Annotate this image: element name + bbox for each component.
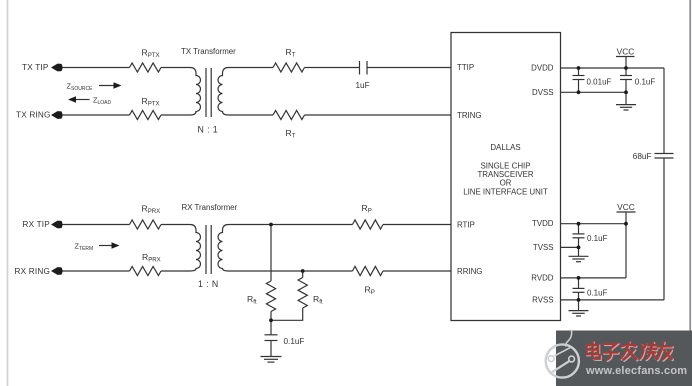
svg-text:RX TIP: RX TIP <box>23 220 51 229</box>
capacitor 0.01uF plate top <box>573 75 585 77</box>
wire to transformer primary bottom <box>161 114 187 116</box>
node dot TVDD / VCC2 <box>624 222 628 226</box>
page right border line <box>689 0 691 386</box>
svg-text:1 : N: 1 : N <box>198 279 219 289</box>
wire VCC1 stub <box>625 57 627 69</box>
node dot TVSS / cap <box>577 246 581 250</box>
watermark text www.elecfans.com <box>586 365 687 377</box>
resistor RT top body <box>273 63 305 72</box>
ground symbol DVSS line 2 <box>620 106 632 108</box>
watermark badge box <box>556 331 692 386</box>
ground symbol TVSS line 2 <box>572 258 584 260</box>
wire RX secondary bottom <box>232 270 353 272</box>
svg-text:Rft: Rft <box>247 294 257 306</box>
wire RX secondary top to RP <box>232 224 353 226</box>
svg-text:TX TIP: TX TIP <box>22 63 49 72</box>
transformer T2 secondary winding <box>218 225 231 272</box>
capacitor C 1uF plate right <box>366 61 368 75</box>
svg-text:0.1uF: 0.1uF <box>284 337 305 346</box>
watermark brand text 电子发烧友 strokes <box>587 342 672 360</box>
capacitor C0.1uF digital bottom stub <box>625 80 627 93</box>
TX RING input arrowhead <box>51 111 63 119</box>
resistor RP bottom body <box>353 266 384 275</box>
capacitor 0.01uF plate bottom <box>573 79 585 81</box>
wire TVSS to ground <box>578 247 580 256</box>
svg-text:68uF: 68uF <box>633 152 652 161</box>
wire RX TIP <box>60 224 130 226</box>
svg-text:RVSS: RVSS <box>532 295 553 304</box>
svg-text:RTIP: RTIP <box>457 221 475 230</box>
ground symbol RX line 2 <box>264 358 278 360</box>
net VCC2 underline <box>617 211 636 213</box>
svg-text:RX Transformer: RX Transformer <box>182 203 238 212</box>
svg-text:TX Transformer: TX Transformer <box>181 47 236 56</box>
transformer T2 core line 2 <box>210 225 212 274</box>
transformer T1 core line 2 <box>210 68 212 117</box>
svg-text:TRING: TRING <box>457 111 482 120</box>
resistor RR bottom lead <box>270 312 272 321</box>
wire DVDD <box>561 67 665 69</box>
resistor RP top body <box>353 220 384 229</box>
capacitor C0.1uF RVDD top stub <box>578 278 580 289</box>
svg-text:RPRX: RPRX <box>142 252 161 264</box>
svg-text:DALLAS: DALLAS <box>490 143 520 152</box>
svg-text:RX RING: RX RING <box>15 267 51 276</box>
watermark logo cable upper segment <box>554 347 570 356</box>
svg-text:DVSS: DVSS <box>532 88 554 97</box>
Zsource arrowhead <box>114 82 122 88</box>
ground symbol DVSS line 3 <box>624 109 629 111</box>
ground symbol RVSS line 2 <box>572 312 584 314</box>
resistor RPTX bottom body <box>130 110 162 119</box>
svg-text:RP: RP <box>365 284 375 296</box>
svg-text:ZSOURCE: ZSOURCE <box>67 82 94 92</box>
svg-text:RRING: RRING <box>457 267 482 276</box>
capacitor C 0.1uF plate bottom <box>265 340 278 342</box>
wire right vertical rail bottom <box>663 158 665 300</box>
RX TIP input arrowhead <box>51 221 63 229</box>
svg-text:TVDD: TVDD <box>532 219 554 228</box>
svg-text:0.1uF: 0.1uF <box>635 78 656 87</box>
svg-text:N : 1: N : 1 <box>198 124 219 134</box>
wire RT bottom to TRING pin <box>305 114 452 116</box>
capacitor C0.1uF digital top stub <box>625 68 627 76</box>
svg-text:RPTX: RPTX <box>142 96 160 108</box>
svg-text:TTIP: TTIP <box>457 63 474 72</box>
capacitor 0.01uF top stub <box>578 68 580 76</box>
resistor RPRX top body <box>130 220 162 229</box>
resistor Rft bottom lead and connector to junction <box>271 308 303 320</box>
watermark logo circle ring <box>546 344 579 377</box>
wire DVSS <box>561 91 627 93</box>
wire VCC2 stub <box>625 212 627 224</box>
transformer T2 primary winding <box>187 225 201 272</box>
transformer T1 core line 1 <box>205 68 207 117</box>
node dot RVDD / cap <box>577 276 581 280</box>
wire RP bottom to RRING pin <box>383 270 451 272</box>
resistor RPTX top body <box>130 63 162 72</box>
page left border line <box>7 0 9 386</box>
capacitor C0.1uF digital plate top <box>620 75 632 77</box>
wire RVSS <box>561 299 665 301</box>
wire to RX transformer primary bottom <box>161 270 187 272</box>
svg-text:ZLOAD: ZLOAD <box>93 96 112 106</box>
node dot DVDD / 0.01uF <box>577 66 581 70</box>
wire TVDD <box>561 223 627 225</box>
capacitor C0.1uF TVDD bottom stub <box>578 238 580 248</box>
RX RING input arrowhead <box>51 267 63 275</box>
resistor RT bottom body <box>273 110 305 119</box>
wire secondary top to RT <box>232 67 274 69</box>
svg-text:TX RING: TX RING <box>16 110 51 119</box>
wire to transformer primary top <box>161 67 187 69</box>
capacitor 68uF plate bottom <box>655 157 674 159</box>
ground symbol DVSS line 1 <box>616 104 636 106</box>
node junction dot RRING net / Rft <box>301 269 305 273</box>
watermark logo prong hole left <box>548 356 554 362</box>
ground symbol RX line 3 <box>268 361 275 363</box>
wire RVDD <box>561 277 627 279</box>
svg-text:RP: RP <box>362 203 372 215</box>
watermark logo prong hole right <box>569 356 575 362</box>
capacitor C0.1uF RVDD plate top <box>573 287 585 289</box>
wire DVSS to ground <box>625 92 627 104</box>
Zterm arrow line <box>99 245 114 247</box>
capacitor C0.1uF TVDD plate top <box>573 233 585 235</box>
node junction dot RTIP net / RR <box>269 223 273 227</box>
svg-text:1uF: 1uF <box>356 81 370 90</box>
Zload arrow line <box>74 99 90 101</box>
svg-text:0.01uF: 0.01uF <box>587 78 612 87</box>
capacitor 0.01uF bottom stub <box>578 80 580 93</box>
resistor Rft body vertical <box>298 278 307 309</box>
capacitor C0.1uF RVDD bottom stub <box>578 292 580 300</box>
svg-text:VCC: VCC <box>617 46 635 56</box>
capacitor C0.1uF digital plate bottom <box>620 79 632 81</box>
capacitor C 1uF plate left <box>359 61 361 75</box>
node dot RVSS / cap <box>577 298 581 302</box>
ground symbol TVSS line 3 <box>576 261 581 263</box>
node dot TVDD / cap <box>577 222 581 226</box>
resistor RR body vertical <box>266 281 275 312</box>
svg-text:RT: RT <box>286 47 296 59</box>
Zterm arrowhead <box>112 242 120 248</box>
svg-text:VCC: VCC <box>617 202 635 212</box>
svg-text:SINGLE CHIP: SINGLE CHIP <box>481 161 531 170</box>
svg-text:Rft: Rft <box>313 294 323 306</box>
svg-text:RVDD: RVDD <box>531 273 554 282</box>
capacitor C0.1uF TVDD top stub <box>578 224 580 234</box>
svg-text:0.1uF: 0.1uF <box>587 289 608 298</box>
wire VCC2 down to RVDD <box>625 224 627 278</box>
node dot DVSS / ground <box>624 90 628 94</box>
node dot DVDD / VCC1 <box>624 66 628 70</box>
wire to RX transformer primary top <box>161 224 187 226</box>
transformer T1 primary winding <box>187 68 201 116</box>
capacitor C0.1uF RVDD plate bottom <box>573 291 585 293</box>
svg-text:ZTERM: ZTERM <box>75 242 94 252</box>
svg-text:0.1uF: 0.1uF <box>587 234 608 243</box>
capacitor C0.1uF TVDD plate bottom <box>573 237 585 239</box>
resistor RR stub from RTIP net <box>270 225 272 282</box>
net VCC1 underline <box>616 56 635 58</box>
transformer T2 core line 1 <box>205 225 207 274</box>
wire capacitor to ground <box>270 341 272 357</box>
svg-text:DVDD: DVDD <box>531 64 554 73</box>
wire RP to RTIP pin <box>383 224 451 226</box>
ground symbol RVSS line 3 <box>576 315 581 317</box>
svg-text:TVSS: TVSS <box>533 243 554 252</box>
ground symbol RVSS line 1 <box>569 310 589 312</box>
capacitor C 0.1uF plate top <box>265 334 278 336</box>
wire TVSS <box>561 246 579 248</box>
TX TIP input arrowhead <box>51 64 63 72</box>
svg-text:OR: OR <box>500 179 512 188</box>
resistor RPRX bottom body <box>130 266 162 275</box>
svg-text:LINE INTERFACE UNIT: LINE INTERFACE UNIT <box>463 188 548 197</box>
Zsource arrow line <box>99 85 116 87</box>
capacitor 68uF plate top <box>655 153 674 155</box>
Zload arrowhead <box>68 96 76 102</box>
wire right vertical VCC rail top <box>663 68 665 154</box>
watermark logo cable lower segment <box>550 361 569 373</box>
wire TX TIP <box>60 67 130 69</box>
wire RX RING <box>60 270 130 272</box>
svg-text:RPTX: RPTX <box>142 47 160 59</box>
ground symbol TVSS line 1 <box>569 255 589 257</box>
wire junction to capacitor 0.1uF <box>270 320 272 335</box>
wire TX RING <box>60 114 130 116</box>
wire capacitor to TTIP pin <box>367 67 451 69</box>
node junction dot RR-Rft to cap <box>269 318 273 322</box>
svg-text:RPRX: RPRX <box>142 203 161 215</box>
transformer T1 secondary winding <box>218 68 231 116</box>
svg-text:RT: RT <box>286 128 296 140</box>
resistor Rft stub from RRING net <box>302 271 304 278</box>
node dot DVSS / 0.01uF <box>577 90 581 94</box>
wire RT to capacitor 1uF <box>305 67 360 69</box>
ground symbol RX line 1 <box>261 356 282 358</box>
IC U1 DALLAS transceiver box <box>451 33 561 321</box>
watermark brand glyphs shadow <box>588 343 673 361</box>
wire RVSS to ground <box>578 300 580 311</box>
watermark logo sprout tail <box>566 330 572 347</box>
wire secondary bottom to RT bottom <box>232 114 274 116</box>
